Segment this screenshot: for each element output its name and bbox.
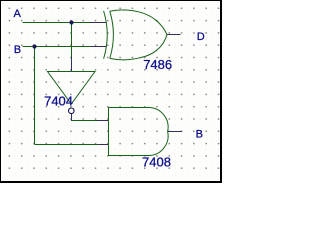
junction on B wire	[32, 44, 36, 48]
XOR gate U1 7486 body	[104, 10, 167, 60]
wire A to inverter vertical	[71, 23, 73, 58]
XOR gate U1 7486 pins	[91, 23, 181, 47]
svg-text:7486: 7486	[143, 57, 172, 72]
wire inverter output run	[72, 118, 98, 121]
svg-text:A: A	[14, 8, 22, 20]
AND gate U3 7408 pins	[97, 121, 182, 145]
inverter U2 7404 input pin	[71, 57, 73, 72]
svg-text:B: B	[196, 128, 203, 140]
wire A horizontal	[23, 22, 92, 24]
inverter U2 7404 triangle	[48, 72, 96, 105]
border frame	[0, 0, 222, 183]
wire B horizontal	[23, 46, 92, 48]
junction on A wire	[69, 20, 73, 24]
svg-text:B: B	[14, 44, 21, 56]
svg-text:7404: 7404	[44, 93, 73, 108]
svg-text:7408: 7408	[142, 155, 171, 170]
svg-text:D: D	[197, 31, 205, 43]
AND gate U3 7408 body	[109, 107, 169, 155]
inverter U2 7404 bubble	[69, 108, 75, 114]
wire B down vertical	[34, 47, 36, 145]
grid dots (decorative)	[9, 8, 219, 175]
inverter output pin stub	[71, 114, 73, 120]
wire B bottom run	[35, 144, 99, 146]
